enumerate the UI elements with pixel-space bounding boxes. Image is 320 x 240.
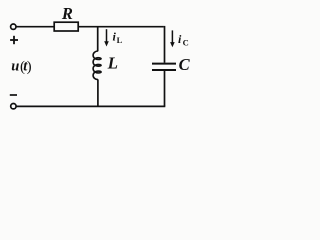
- wire: top, resistor to top-right corner: [78, 26, 163, 28]
- terminal: top-left: [11, 24, 16, 29]
- svg-text:u: u: [11, 59, 19, 75]
- wire: bottom: [16, 105, 165, 107]
- polarity minus sign: [10, 94, 17, 96]
- wire: right branch lower (capacitor to bottom wire): [164, 71, 166, 107]
- svg-text:L: L: [117, 35, 123, 45]
- paper background: [0, 0, 199, 123]
- wire: right branch upper (corner down to capacitor): [164, 26, 166, 63]
- wire: middle branch upper (top wire to inductor): [97, 27, 99, 52]
- svg-text:L: L: [107, 54, 118, 73]
- inductor L coil: [93, 51, 101, 80]
- polarity plus sign: [10, 36, 18, 44]
- current arrow iL: [106, 29, 108, 42]
- wire: middle branch lower (inductor to bottom wire): [97, 79, 99, 106]
- svg-text:R: R: [61, 4, 73, 23]
- terminal: bottom-left: [11, 104, 16, 109]
- current arrow iC: [171, 30, 173, 42]
- wire: top, source to resistor: [16, 26, 54, 28]
- svg-text:C: C: [183, 38, 189, 48]
- svg-text:C: C: [179, 55, 191, 74]
- capacitor C plates: [152, 63, 176, 65]
- resistor R1 box: [54, 22, 78, 31]
- svg-text:): ): [27, 59, 32, 75]
